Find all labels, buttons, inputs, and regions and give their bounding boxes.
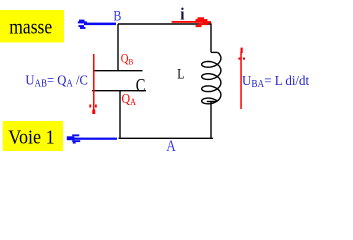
svg-text:C: C xyxy=(136,75,146,96)
svg-text:L: L xyxy=(177,65,184,82)
svg-text:i: i xyxy=(180,6,185,24)
svg-text:QA: QA xyxy=(122,90,137,107)
svg-text:QB: QB xyxy=(121,52,133,67)
svg-text:Voie 1: Voie 1 xyxy=(8,126,55,148)
svg-text:A: A xyxy=(166,138,176,155)
svg-text:B: B xyxy=(113,7,121,24)
svg-text:masse: masse xyxy=(9,16,52,39)
svg-text:UBA= L di/dt: UBA= L di/dt xyxy=(242,73,309,91)
svg-text:UAB= QA /C: UAB= QA /C xyxy=(25,72,88,90)
